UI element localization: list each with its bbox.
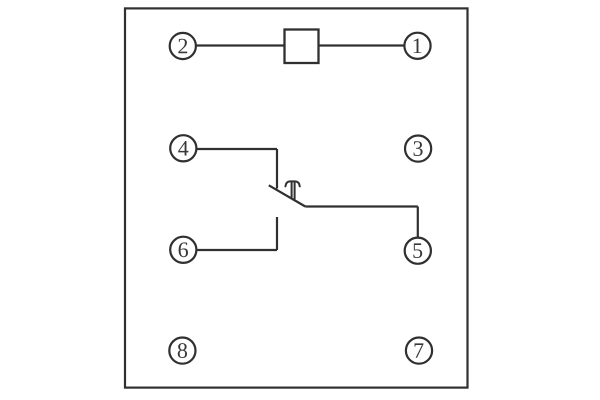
pin 3 xyxy=(405,136,431,162)
wire pin2 to coil xyxy=(196,44,285,46)
pin 4 xyxy=(170,135,196,161)
wire pin4 horizontal xyxy=(196,148,277,150)
wire blade to pin5 horizontal xyxy=(305,205,418,207)
switch blade xyxy=(269,185,306,206)
pin 7 xyxy=(406,338,432,364)
coil box xyxy=(285,30,319,64)
pin 8 xyxy=(169,338,195,364)
wire pin6 horizontal xyxy=(196,249,277,251)
relay case outline xyxy=(125,8,468,387)
pin 5 xyxy=(405,238,431,264)
pin 1 xyxy=(404,33,430,59)
pin 6 xyxy=(170,237,196,263)
pin 2 xyxy=(170,33,196,59)
wire pin4 vertical drop xyxy=(276,149,278,189)
wire pin5 vertical riser xyxy=(417,207,419,238)
actuation arrow xyxy=(285,181,299,199)
wire pin6 vertical stub xyxy=(276,217,278,250)
wire coil to pin1 xyxy=(319,44,405,46)
